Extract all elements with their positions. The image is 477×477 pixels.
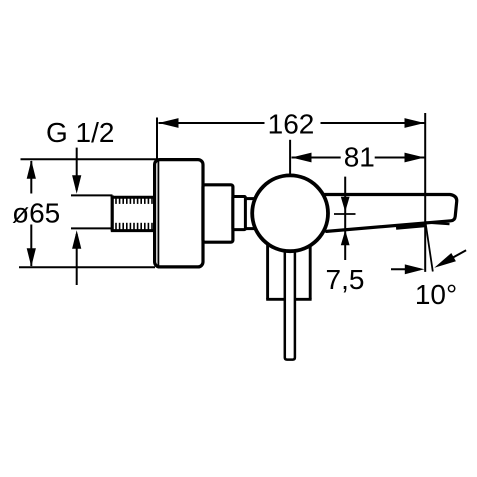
outer pipe below body bbox=[266, 240, 311, 299]
dimension 81 extension line (body centre) bbox=[289, 140, 291, 174]
spout tip step bbox=[426, 222, 450, 224]
10 degree horizontal arrow bbox=[391, 268, 420, 270]
aerator underside bbox=[396, 225, 426, 228]
wall flange (escutcheon) bbox=[155, 160, 203, 267]
flange bottom extension line bbox=[19, 266, 155, 268]
dimension line 81 bbox=[292, 157, 425, 159]
spout body bbox=[318, 195, 457, 232]
neck between cartridge and body bbox=[245, 199, 256, 229]
thread crest bottom bbox=[111, 229, 153, 232]
thread crest top bbox=[111, 196, 153, 199]
G1/2 arrow lower bbox=[76, 234, 78, 285]
10 degree slanted arrow bbox=[450, 250, 466, 259]
flange inner edge line bbox=[157, 161, 159, 267]
flange top extension line bbox=[21, 158, 157, 160]
svg-text:G 1/2: G 1/2 bbox=[46, 117, 114, 148]
svg-text:7,5: 7,5 bbox=[326, 264, 365, 295]
dimension 7,5 line bbox=[344, 177, 346, 260]
svg-text:ø65: ø65 bbox=[12, 198, 60, 229]
thread start edge bbox=[111, 195, 114, 230]
mixer body circle bbox=[252, 175, 328, 251]
thread hatch ticks bbox=[116, 198, 152, 231]
dimension line 162 bbox=[159, 122, 425, 124]
dimension extension line right (shared 162/81) bbox=[424, 113, 426, 272]
dimension 162 extension line left bbox=[156, 118, 158, 160]
centreline tick bbox=[334, 213, 356, 215]
plain pipe bbox=[71, 195, 113, 228]
svg-text:162: 162 bbox=[268, 109, 315, 140]
G1/2 arrow upper bbox=[76, 148, 78, 190]
svg-text:81: 81 bbox=[344, 141, 375, 172]
10 degree reference slant line bbox=[426, 223, 433, 272]
step 2 housing bbox=[233, 197, 246, 230]
dimension line o65 bbox=[30, 161, 32, 266]
inner pipe below body bbox=[285, 240, 295, 360]
svg-text:10°: 10° bbox=[415, 279, 457, 310]
step 1 housing bbox=[203, 185, 233, 242]
